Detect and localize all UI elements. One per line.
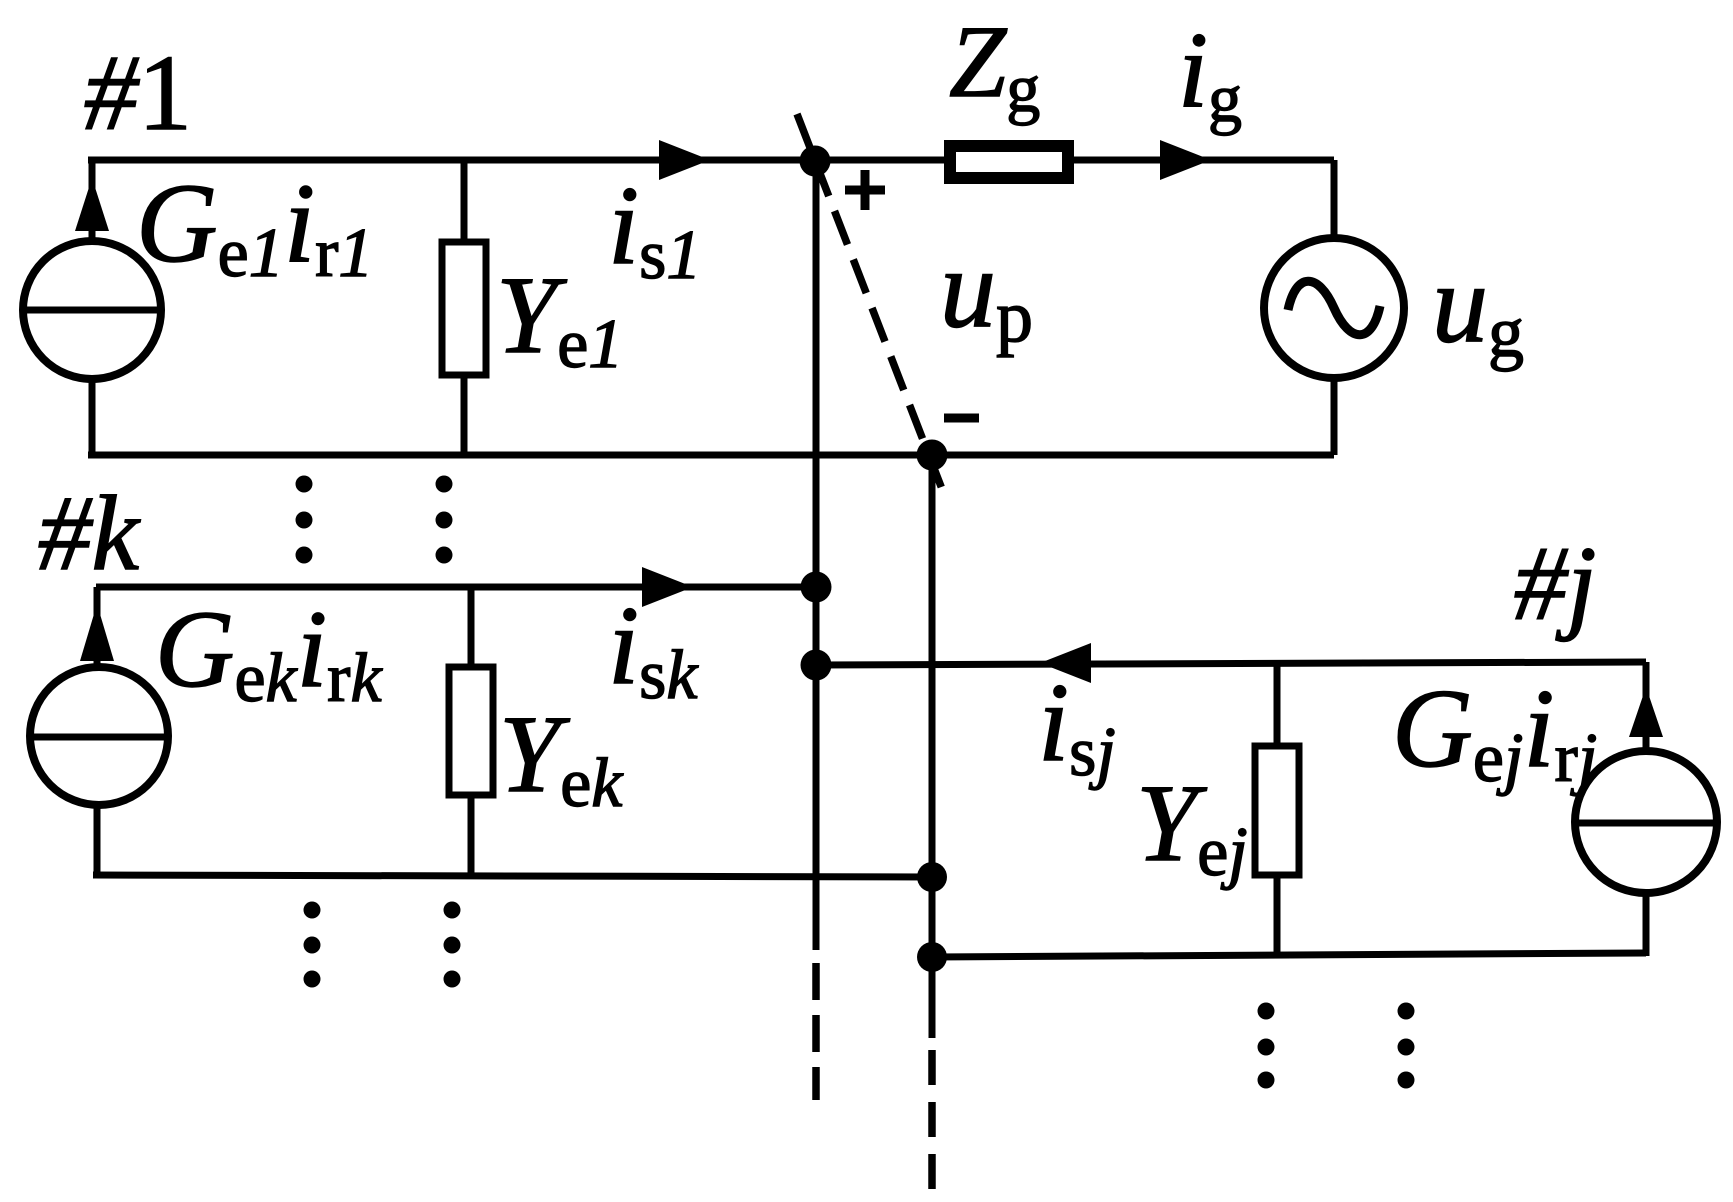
dashed measurement line u_p [797,114,942,489]
wire: #j bottom horizontal [932,953,1646,957]
source u_g circle [1264,238,1404,378]
wire: bus at x=816 [813,161,820,950]
wire: #1/top bottom horizontal [88,452,1334,459]
wire: Y_ek branch [468,587,475,876]
wire: #j right vertical lower [1643,891,1650,956]
node: #k top on bus [801,572,832,603]
ellipsis dots below #k [304,902,461,988]
sine wave in u_g [1288,281,1380,335]
wire: Y_e1 branch [461,160,468,455]
wire: bus at x=932 [929,455,936,1038]
node: #j bottom on bus2 [917,942,947,972]
admittance Y_ek rectangle [449,667,493,795]
wire: corner vertical down to u_g [1331,160,1338,240]
node: i_sj on bus [801,650,832,681]
ellipsis dots below #j [1258,1003,1415,1089]
node B: junction bottom (u_p -) [917,440,948,471]
current source G_ej i_rj circle [1575,751,1717,893]
admittance Y_ej rectangle [1255,746,1299,875]
current source G_ek i_rk circle [30,667,168,805]
minus sign of u_p [944,414,979,423]
svg-text:#j: #j [1514,525,1596,642]
impedance Z_g rectangle [950,146,1068,178]
wire: #k left vertical upper [94,587,101,670]
wire: Z_g to corner [1073,157,1334,164]
ellipsis dots between #1 and #k [296,476,453,564]
plus sign of u_p [845,170,885,210]
node A: junction top (u_p +) [800,146,831,177]
wire: #k left vertical lower [94,805,101,875]
arrowhead: i_s1 right [659,140,710,180]
wire: #k bottom horizontal [93,875,932,877]
arrowhead: current source #k up [80,604,114,661]
wire: #j right vertical upper [1643,662,1650,753]
arrowhead: current source #j up [1629,687,1663,737]
admittance Y_e1 rectangle [442,242,486,375]
wire: #1 left vertical upper [89,160,96,243]
wire: #j top horizontal i_sj [816,662,1646,665]
wire: bus at x=932 dashed tail [928,1050,936,1192]
wire: Y_ej branch [1274,663,1281,956]
node: #k bottom on bus2 [917,862,947,892]
wire: #1 top horizontal [88,157,815,164]
wire: u_g lower vertical [1331,378,1338,455]
arrowhead: i_sj left [1040,643,1091,683]
wire: #k top horizontal [96,584,816,591]
svg-text:#1: #1 [84,34,192,153]
wire: node to Z_g [815,157,944,164]
arrowhead: i_g right [1160,140,1211,180]
wire: bus at x=816 dashed tail [812,963,820,1100]
arrowhead: i_sk right [642,567,693,607]
current source G_e1 i_r1 circle [23,241,161,379]
arrowhead: current source #1 up [75,178,109,231]
wire: #1 left vertical lower [89,378,96,455]
svg-text:#k: #k [38,475,142,593]
